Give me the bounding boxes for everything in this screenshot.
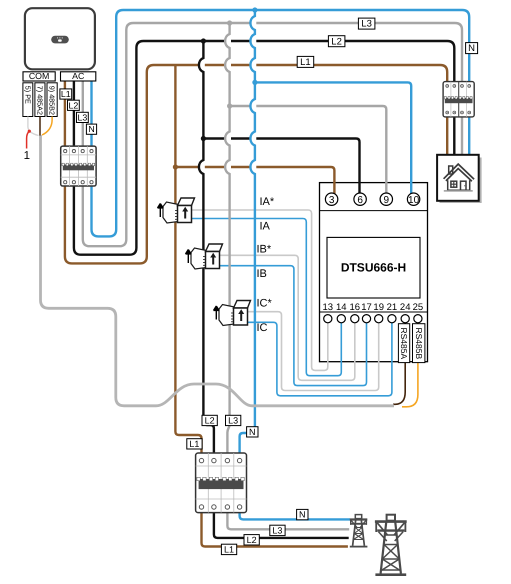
- svg-text:24: 24: [400, 302, 411, 313]
- wire vertical L1 brown bus drop through CT1 to bottom breaker and grid: [175, 65, 348, 547]
- breaker bottom 4-pole: [196, 453, 247, 513]
- svg-text:L2: L2: [205, 416, 215, 426]
- wire L1 brown: inverter AC to left breaker, U loop, top bus, right breaker, house: [65, 65, 447, 263]
- svg-text:L1: L1: [224, 544, 234, 554]
- wire CT3 output IC* to terminal 19: [248, 312, 379, 391]
- svg-text:L2: L2: [69, 100, 79, 110]
- label box RS485B: [413, 324, 425, 363]
- svg-text:L1: L1: [189, 439, 199, 449]
- inverter box: [25, 8, 95, 69]
- label box L3 (above bottom breaker): [226, 415, 241, 425]
- label box RS485A: [398, 324, 409, 363]
- label box L2 (top bus): [328, 36, 345, 48]
- junction dot black bus: [201, 38, 206, 43]
- junction dot blue bus: [252, 7, 257, 12]
- wire CT1 output IA to terminal 14: [192, 219, 342, 376]
- junction dot blue branch: [252, 80, 257, 85]
- svg-text:RS485B: RS485B: [414, 328, 424, 360]
- port box AC: [61, 71, 96, 81]
- svg-text:IC*: IC*: [257, 298, 273, 310]
- wire vertical L3 gray bus drop through CT3 to bottom breaker and grid: [225, 23, 349, 529]
- wire N blue: inverter AC to left breaker, U loop, top bus, right breaker, house: [92, 10, 470, 236]
- grid tower small: [350, 515, 368, 548]
- wire 485A2 dark stub: [39, 117, 41, 136]
- svg-text:17: 17: [361, 302, 372, 313]
- house box: [437, 155, 482, 203]
- CT transformer CT3 on L3: [213, 301, 250, 326]
- label box L1 (top bus): [297, 56, 314, 68]
- meter terminal 10: [407, 193, 419, 206]
- svg-text:DTSU666-H: DTSU666-H: [341, 261, 406, 275]
- junction dot brown branch: [173, 164, 178, 169]
- meter bottom terminal circles 13-25: [324, 315, 422, 323]
- wire RS485B orange tail from terminal 25: [402, 323, 418, 407]
- meter inner display box: [327, 237, 420, 298]
- svg-text:14: 14: [336, 302, 347, 313]
- meter terminal 9: [380, 193, 392, 206]
- label box L2 (bottom grid): [244, 535, 259, 545]
- wire branch black to meter terminal 6: [203, 139, 359, 197]
- junction dot red: [28, 130, 31, 133]
- label box N (bottom grid): [297, 509, 308, 519]
- svg-text:N: N: [299, 510, 306, 520]
- svg-text:IB*: IB*: [257, 244, 272, 256]
- wire vertical N blue bus drop to bottom breaker and grid: [240, 10, 350, 519]
- svg-text:L2: L2: [247, 535, 257, 545]
- svg-text:21: 21: [387, 302, 398, 313]
- svg-text:L2: L2: [331, 36, 342, 47]
- svg-text:N: N: [249, 427, 256, 437]
- svg-text:N: N: [468, 43, 475, 54]
- svg-text:L1: L1: [300, 57, 311, 68]
- label box L3 (left stair): [77, 112, 89, 122]
- svg-text:3: 3: [329, 195, 335, 206]
- wire CT1 output IA* to terminal 13: [192, 210, 328, 370]
- label box L2 (above bottom breaker): [202, 415, 217, 425]
- wire L2 black: inverter AC to left breaker, U loop, top bus, right breaker, house: [74, 41, 454, 255]
- svg-text:1: 1: [24, 150, 30, 162]
- svg-text:IB: IB: [257, 268, 267, 280]
- breaker right 4-pole: [443, 82, 474, 117]
- house icon: [444, 164, 475, 191]
- svg-text:IC: IC: [257, 322, 268, 334]
- terminal label 9) 485B2: [47, 83, 57, 117]
- label box L3 (top bus): [358, 18, 375, 30]
- label box L1 (above bottom breaker): [187, 439, 202, 449]
- svg-text:L3: L3: [361, 19, 372, 30]
- wire hop white gaps: [199, 16, 256, 174]
- svg-text:L3: L3: [228, 416, 238, 426]
- port box COM: [23, 71, 55, 81]
- svg-text:IA*: IA*: [260, 196, 275, 208]
- label box N (above bottom breaker): [247, 427, 258, 437]
- wire vertical L2 black bus drop through CT2 to bottom breaker and grid: [199, 41, 349, 538]
- svg-text:L3: L3: [272, 525, 282, 535]
- wire RS485A dark brown tail from terminal 24: [393, 323, 405, 405]
- wire L3 gray: inverter AC to left breaker, U loop, top bus, right breaker, house: [83, 23, 462, 246]
- inverter logo pill: [51, 36, 69, 44]
- meter terminal 6: [354, 193, 366, 206]
- label box L3 (bottom grid): [270, 525, 285, 535]
- meter terminal 3: [325, 193, 337, 206]
- svg-text:AC: AC: [72, 71, 85, 81]
- svg-text:9) 485B2: 9) 485B2: [48, 86, 57, 115]
- wire CT2 output IB to terminal 17: [219, 266, 366, 386]
- wire PE white: [28, 117, 39, 136]
- CT transformer CT2 on L2: [185, 244, 222, 269]
- wire CT3 output IC to terminal 21: [248, 322, 392, 396]
- svg-text:RS485A: RS485A: [399, 328, 409, 360]
- meter DTSU666-H outer box: [320, 183, 428, 362]
- svg-text:16: 16: [350, 302, 361, 313]
- wire branch gray to meter terminal 9: [230, 106, 387, 196]
- svg-text:7) 485A2: 7) 485A2: [35, 86, 44, 115]
- svg-text:IA: IA: [260, 221, 271, 233]
- svg-text:10: 10: [408, 195, 420, 206]
- svg-text:L3: L3: [78, 112, 88, 122]
- breaker left 4-pole: [61, 146, 96, 186]
- svg-text:N: N: [88, 124, 94, 134]
- wire PE red callout mark: [27, 131, 30, 148]
- meter bottom terminal numbers 13 14 16 17 19 21 24 25: [323, 302, 424, 313]
- CT transformer CT1 on L1: [157, 198, 194, 223]
- wire branch blue to meter terminal 10: [255, 82, 411, 196]
- label box L1 (bottom grid): [221, 544, 236, 554]
- grid tower large: [375, 515, 407, 576]
- svg-text:13: 13: [323, 302, 334, 313]
- junction dot black branch: [201, 136, 206, 141]
- svg-text:19: 19: [373, 302, 384, 313]
- svg-text:L1: L1: [61, 89, 71, 99]
- terminal label 7) 485A2: [35, 83, 45, 117]
- label box L1 (left stair): [60, 89, 72, 99]
- svg-text:6: 6: [357, 195, 363, 206]
- label box N (left stair): [86, 124, 96, 134]
- junction dot gray branch: [227, 103, 232, 108]
- svg-text:COM: COM: [29, 71, 50, 81]
- terminal label 5) PE: [23, 83, 33, 117]
- svg-text:9: 9: [384, 195, 390, 206]
- wire branch brown to meter terminal 3: [175, 167, 334, 196]
- label box L2 (left stair): [68, 100, 80, 110]
- wire 485B2 orange stub: [42, 117, 52, 136]
- wire CT2 output IB* to terminal 16: [219, 255, 354, 380]
- svg-text:25: 25: [413, 302, 424, 313]
- svg-text:5) PE: 5) PE: [23, 86, 32, 104]
- junction dot gray bus: [227, 20, 232, 25]
- wire RS485 gray cable from inverter COM to meter: [41, 135, 395, 406]
- label box N (top right): [466, 43, 478, 55]
